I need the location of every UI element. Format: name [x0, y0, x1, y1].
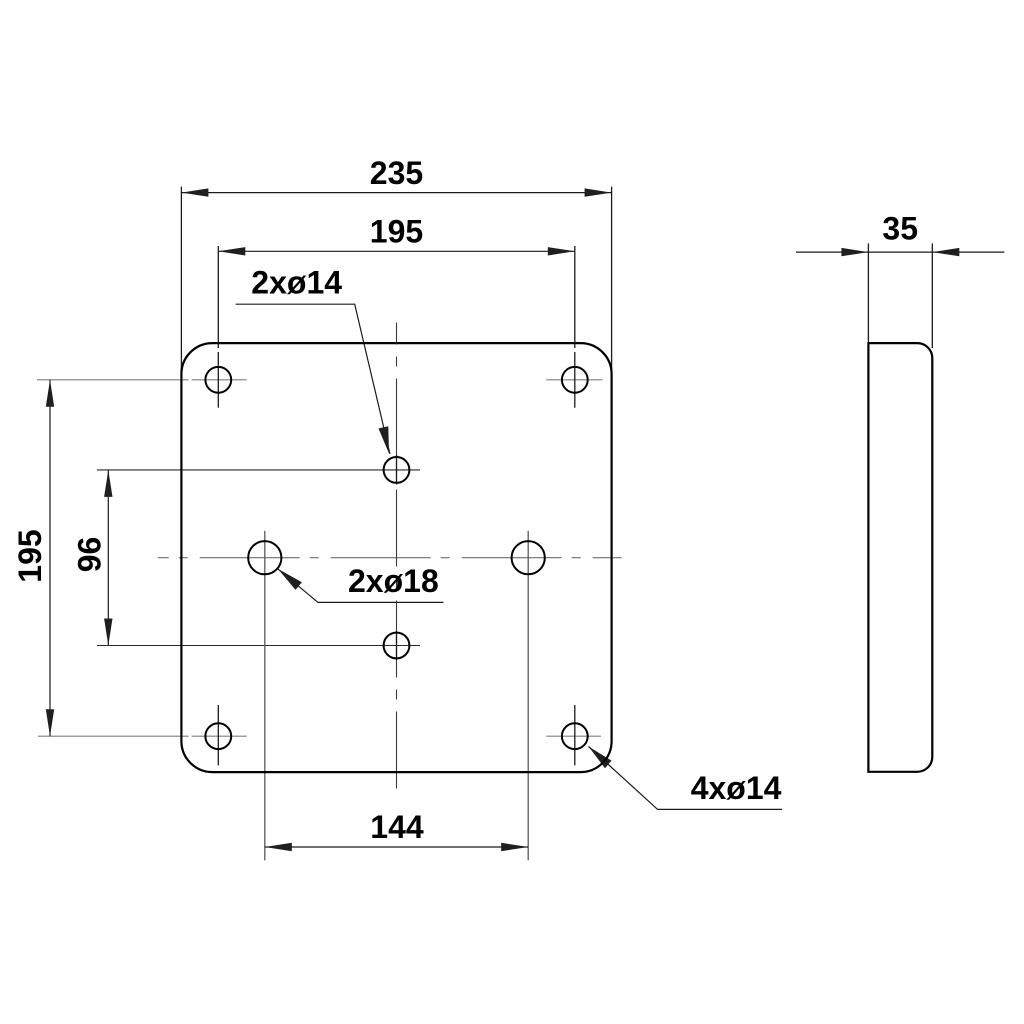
svg-text:2xø18: 2xø18 — [348, 563, 439, 599]
svg-text:195: 195 — [12, 529, 48, 582]
svg-text:4xø14: 4xø14 — [691, 770, 782, 806]
svg-text:35: 35 — [882, 211, 918, 247]
svg-text:96: 96 — [72, 537, 108, 573]
svg-text:144: 144 — [370, 809, 424, 845]
svg-text:235: 235 — [370, 155, 423, 191]
svg-text:2xø14: 2xø14 — [251, 264, 342, 300]
svg-text:195: 195 — [370, 214, 423, 250]
